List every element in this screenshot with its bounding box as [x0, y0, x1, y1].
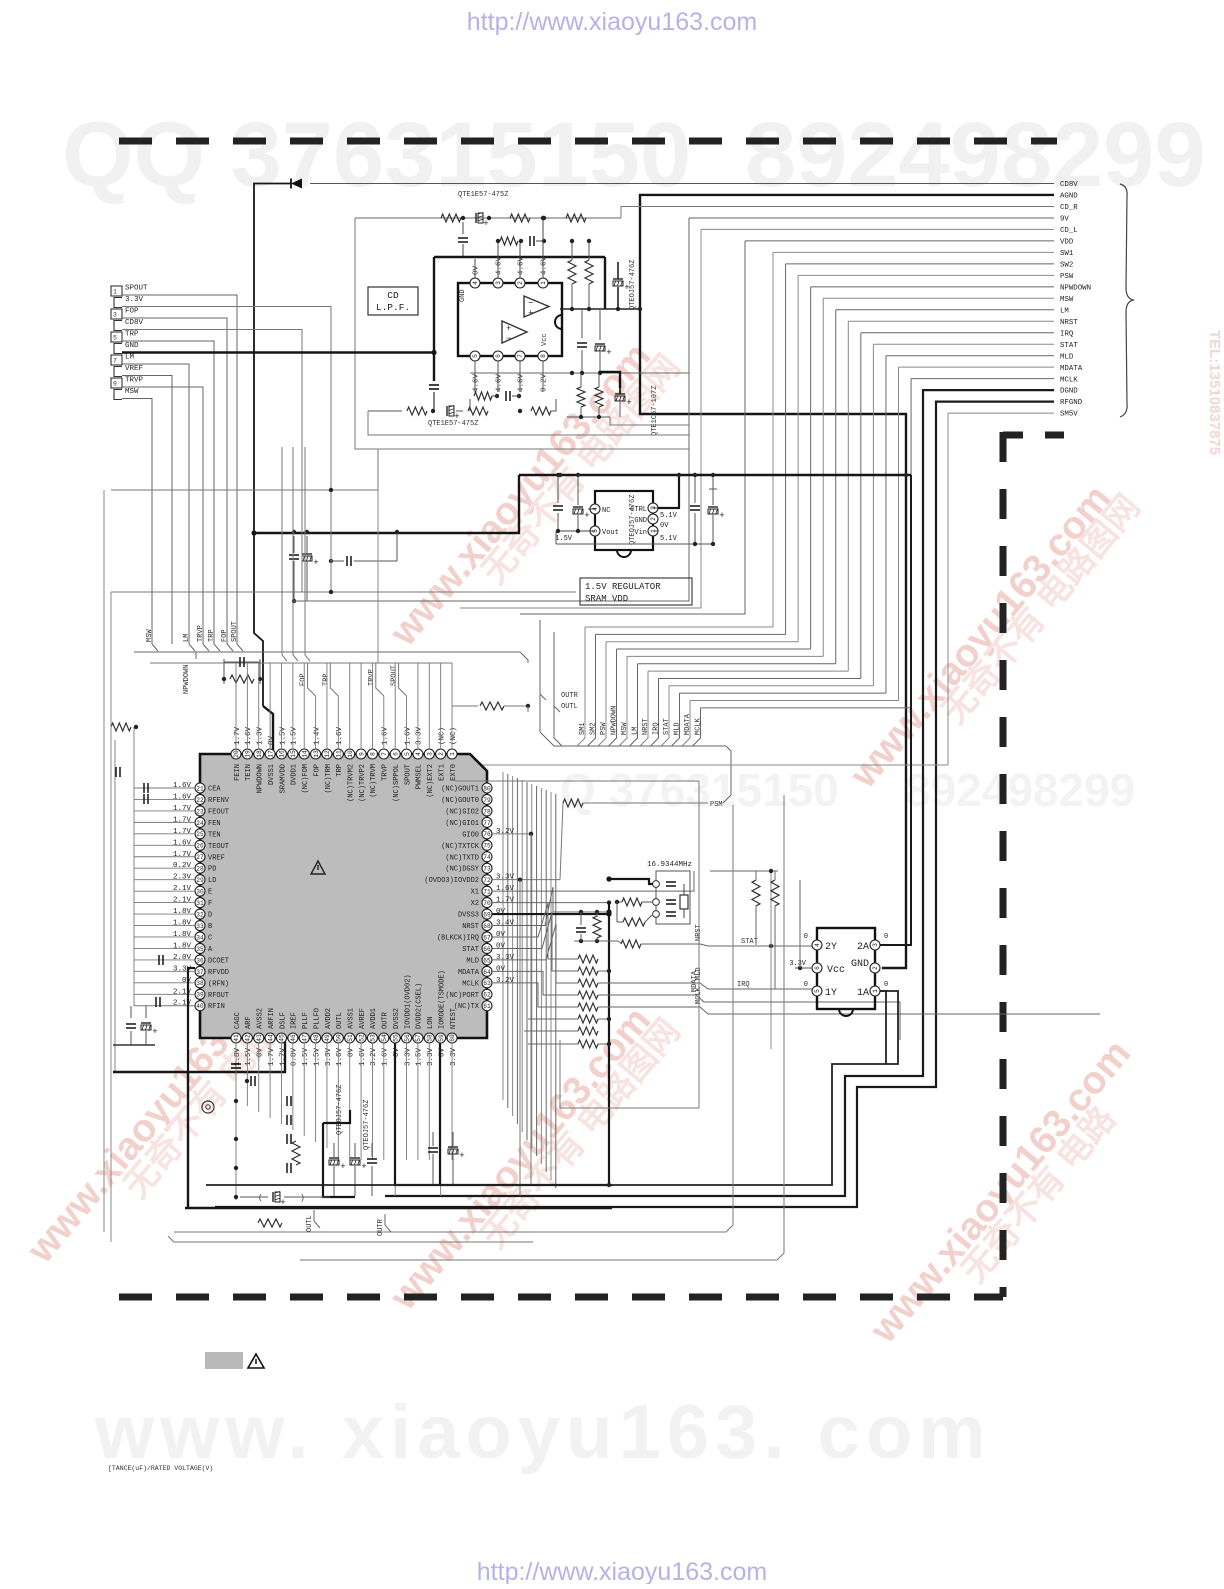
svg-text:0V: 0V [496, 965, 506, 973]
svg-text:3.3V: 3.3V [404, 1048, 412, 1067]
svg-text:28: 28 [196, 866, 204, 873]
svg-text:1.5V: 1.5V [279, 726, 287, 745]
regulator ecap C-r4 [712, 475, 714, 505]
main IC top pins [231, 749, 241, 759]
svg-text:SRAMVDD: SRAMVDD [279, 764, 287, 793]
electrolytic C-e1 [613, 278, 623, 280]
svg-text:4: 4 [814, 943, 821, 947]
svg-text:ARFIN: ARFIN [268, 1008, 276, 1029]
svg-text:RFGND: RFGND [1060, 399, 1083, 407]
svg-text:(NC)TRM: (NC)TRM [325, 764, 333, 793]
svg-text:−: − [528, 299, 533, 309]
left bottom caps [130, 1006, 132, 1018]
svg-text:(NC)SPPOL: (NC)SPPOL [393, 764, 401, 802]
svg-text:0V: 0V [496, 931, 506, 939]
svg-text:SRAM VDD: SRAM VDD [585, 594, 628, 604]
pins top row lpf [470, 278, 480, 288]
regulator bottom wire [556, 543, 713, 545]
svg-text:65: 65 [483, 957, 491, 964]
svg-text:DCOET: DCOET [208, 957, 229, 965]
svg-text:SPOUT: SPOUT [391, 665, 399, 686]
electrolytic C-m2 [599, 309, 601, 340]
svg-text:63: 63 [483, 980, 491, 987]
svg-text:FEOUT: FEOUT [208, 808, 229, 816]
svg-text:B: B [208, 923, 212, 931]
wire MSW nested corner [823, 297, 1054, 299]
svg-text:(NC)GIO1: (NC)GIO1 [445, 820, 479, 828]
resistor R-lpf1 [441, 214, 461, 222]
staircase wire IRQ [659, 677, 861, 679]
wire connector TRP [122, 341, 214, 644]
svg-text:48: 48 [313, 1034, 320, 1042]
svg-text:PSW: PSW [1060, 273, 1074, 281]
svg-text:GND: GND [851, 959, 869, 970]
pins bottom row lpf [470, 351, 480, 361]
svg-text:CD8V: CD8V [125, 319, 144, 327]
wire connector GND [122, 351, 434, 353]
svg-text:MDATA: MDATA [1060, 365, 1083, 373]
svg-text:21: 21 [196, 785, 204, 792]
svg-text:0V: 0V [660, 522, 669, 530]
svg-text:+: + [340, 1162, 345, 1172]
svg-text:(: ( [258, 1194, 263, 1203]
staircase wire NRST [648, 670, 848, 672]
svg-text:FOP: FOP [221, 629, 229, 642]
svg-text:2: 2 [438, 752, 445, 756]
dashed border right top corner [1003, 432, 1064, 439]
dark vertical to gate 2A [880, 475, 911, 945]
svg-text:GIO0: GIO0 [462, 831, 479, 839]
svg-text:PLLFO: PLLFO [313, 1008, 321, 1029]
svg-text:FOP: FOP [125, 308, 139, 316]
thick corner right lpf [604, 257, 606, 309]
iovdd2 psm wire [492, 879, 560, 881]
wire connector 3.3V [122, 307, 331, 593]
svg-text:TRVP: TRVP [197, 625, 205, 642]
nrst rc rows [574, 911, 609, 913]
svg-text:AVDD2: AVDD2 [325, 1008, 333, 1029]
staircase drop MCLK [693, 708, 701, 746]
ecap C-b4 [329, 1157, 339, 1159]
crystal caps [666, 881, 676, 883]
series resistor stack right of IC [578, 955, 598, 963]
svg-text:PLLF: PLLF [302, 1012, 310, 1029]
svg-text:3.2V: 3.2V [496, 828, 515, 836]
resistor R-lpf2 [510, 214, 530, 222]
bottom resistor R-b2 [258, 1219, 282, 1227]
svg-text:www. xiaoyu163. com: www. xiaoyu163. com [94, 1390, 992, 1475]
cap C-b1 big [231, 1063, 241, 1065]
wire MDATA [598, 995, 900, 1040]
svg-text:2A: 2A [857, 942, 869, 953]
svg-text:80: 80 [483, 785, 491, 792]
svg-text:1.6V: 1.6V [336, 1048, 344, 1067]
wire NRST STAT to gate [700, 944, 812, 946]
svg-text:1.4V: 1.4V [313, 726, 321, 745]
svg-text:74: 74 [483, 854, 491, 861]
svg-text:3.2V: 3.2V [370, 1048, 378, 1067]
svg-text:CD_R: CD_R [1060, 204, 1078, 212]
svg-text:LM: LM [183, 634, 191, 642]
svg-text:(RFN): (RFN) [208, 980, 229, 988]
svg-text:FEIN: FEIN [234, 764, 242, 781]
svg-text:QQ 376315150: QQ 376315150 [62, 104, 691, 206]
svg-text:TRP: TRP [336, 764, 344, 777]
svg-text:SW1: SW1 [1060, 250, 1074, 258]
svg-text:15: 15 [290, 750, 297, 758]
svg-text:1Y: 1Y [825, 988, 837, 999]
svg-text:3.3V: 3.3V [789, 960, 807, 968]
svg-text:RFOUT: RFOUT [208, 992, 229, 1000]
svg-text:37: 37 [196, 969, 204, 976]
right labels brace [1120, 184, 1133, 417]
gate right connections [880, 944, 886, 946]
svg-text:VREF: VREF [208, 854, 225, 862]
wire lpf top right [586, 217, 621, 219]
svg-text:5: 5 [113, 335, 117, 342]
cap C-f3 on 3.3V branch [329, 559, 333, 563]
svg-text:68: 68 [483, 923, 491, 930]
wire IRQ nested corner [861, 332, 1054, 334]
svg-text:47: 47 [301, 1034, 308, 1042]
svg-text:TRVP: TRVP [382, 764, 390, 781]
svg-text:QTE1E57-475Z: QTE1E57-475Z [458, 191, 508, 199]
fan verticals alongside IC [502, 772, 504, 1100]
nrst wire [492, 887, 574, 926]
x2 thick drop [608, 903, 610, 1185]
svg-text:1.6V: 1.6V [245, 726, 253, 745]
svg-text:NPWDOWN: NPWDOWN [1060, 284, 1091, 292]
thick 5V feed to rail [254, 475, 519, 533]
svg-text:Vout: Vout [602, 529, 619, 537]
resistor on wire y706 [452, 705, 478, 707]
svg-text:9: 9 [358, 752, 365, 756]
svg-text:CD8V: CD8V [1060, 181, 1078, 189]
svg-text:1.5V: 1.5V [302, 1048, 310, 1067]
resistor R-b1 [292, 1141, 300, 1165]
wires lpf pin stubs top [474, 259, 476, 278]
regulator thick 5V rail [519, 474, 911, 476]
svg-text:MLD: MLD [466, 957, 479, 965]
svg-text:4: 4 [415, 752, 422, 756]
svg-text:0: 0 [804, 933, 808, 941]
svg-text:5: 5 [472, 354, 479, 358]
svg-text:X2: X2 [471, 900, 479, 908]
capacitor C-fb1 [529, 236, 531, 246]
svg-text:MSW: MSW [125, 388, 139, 396]
svg-text:2.1V: 2.1V [173, 885, 192, 893]
left cap C-l1 [115, 767, 117, 777]
svg-text:0V: 0V [496, 942, 506, 950]
svg-text:1.3V: 1.3V [257, 726, 265, 745]
staircase wire PSW [606, 641, 798, 643]
svg-text:NRST: NRST [1060, 319, 1078, 327]
svg-text:RFIN: RFIN [208, 1003, 225, 1011]
svg-text:IRQ: IRQ [653, 722, 661, 735]
svg-text:49: 49 [324, 1034, 331, 1042]
svg-text:34: 34 [196, 934, 204, 941]
svg-text:20: 20 [233, 750, 240, 758]
svg-text:70: 70 [483, 900, 491, 907]
svg-text:30: 30 [196, 889, 204, 896]
svg-text:3.2V: 3.2V [496, 977, 515, 985]
legend warning triangle [248, 1354, 264, 1368]
left thick rfn [188, 968, 195, 1072]
svg-text:+: + [483, 219, 488, 229]
regulator IC U-reg [595, 491, 653, 550]
svg-text:SW2: SW2 [1060, 261, 1073, 269]
wire SW2 nested corner [786, 263, 1054, 265]
svg-text:(NC)PORT: (NC)PORT [445, 992, 479, 1000]
svg-text:AGND: AGND [1060, 193, 1078, 201]
stack rows to thick bus [598, 970, 609, 972]
cap C-b3 [286, 1163, 288, 1173]
svg-text:892498299: 892498299 [905, 764, 1135, 816]
svg-text:4.6V: 4.6V [518, 373, 526, 392]
svg-text:6: 6 [392, 752, 399, 756]
svg-text:TEOUT: TEOUT [208, 843, 229, 851]
svg-text:DVSS2: DVSS2 [393, 1008, 401, 1029]
svg-text:TEN: TEN [208, 831, 221, 839]
connector pin 7 LM [111, 355, 122, 365]
svg-text:16: 16 [279, 750, 286, 758]
svg-text:+: + [280, 1198, 285, 1208]
svg-text:(NC)TRVP2: (NC)TRVP2 [359, 764, 367, 802]
wire AGND thick [640, 195, 1054, 968]
svg-text:SM2: SM2 [590, 722, 598, 735]
staircase drop LM [630, 664, 638, 746]
svg-text:OUTR: OUTR [377, 1218, 385, 1236]
staircase drop STAT [661, 686, 669, 746]
wires lpf pin stubs bottom [474, 361, 476, 392]
staircase drop MSW [619, 656, 627, 746]
svg-text:SPOUT: SPOUT [404, 764, 412, 785]
merge bus wire [540, 732, 731, 803]
svg-text:3.3V: 3.3V [496, 874, 515, 882]
cap C-b2 [250, 1076, 252, 1086]
svg-text:CD_L: CD_L [1060, 227, 1078, 235]
svg-text:4: 4 [472, 281, 479, 285]
wire MLD nested corner [886, 355, 1054, 357]
wire connector FOP [122, 318, 227, 644]
svg-text:(NC)GOUT0: (NC)GOUT0 [441, 797, 479, 805]
svg-text:27: 27 [196, 854, 204, 861]
svg-text:EXT1: EXT1 [438, 764, 446, 781]
svg-text:LON: LON [427, 1016, 435, 1029]
wire MLD IRQ to gate [598, 983, 812, 989]
staircase drop IRQ [651, 678, 659, 746]
main IC bottom pins [231, 1033, 241, 1043]
thick analog bus lpf [434, 256, 605, 258]
svg-text:(NC)TXTD: (NC)TXTD [445, 854, 479, 862]
svg-text:F: F [208, 900, 212, 908]
thick gnd jog down [188, 706, 285, 1072]
wire connector VREF [122, 376, 172, 645]
svg-text:NRST: NRST [462, 923, 479, 931]
svg-text:8: 8 [540, 354, 547, 358]
svg-text:1.7V: 1.7V [173, 805, 192, 813]
electrolytic C-lpf1 [475, 213, 477, 223]
svg-text:+: + [606, 348, 611, 358]
staircase wire MLD [680, 692, 886, 694]
svg-text:18: 18 [256, 750, 263, 758]
svg-text:25: 25 [196, 831, 204, 838]
svg-text:24: 24 [196, 820, 204, 827]
svg-text:45: 45 [279, 1034, 286, 1042]
svg-text:PWMSEL: PWMSEL [416, 764, 424, 789]
main IC U1 body [200, 754, 487, 1038]
svg-text:NPWDOWN: NPWDOWN [611, 706, 619, 735]
svg-text:TEL:13510837875: TEL:13510837875 [1206, 330, 1223, 455]
vertical resistor R-v4 [595, 387, 603, 407]
svg-text:TRP: TRP [208, 629, 216, 642]
svg-text:1.5V: 1.5V [313, 1048, 321, 1067]
svg-text:DVSS1: DVSS1 [268, 764, 276, 785]
nrst res [593, 916, 601, 938]
svg-text:7: 7 [517, 354, 524, 358]
main IC right pins [482, 783, 492, 793]
svg-text:+: + [528, 308, 533, 318]
svg-text:77: 77 [483, 820, 491, 827]
gio0 wire [492, 833, 531, 835]
svg-text:OUTR: OUTR [382, 1011, 390, 1029]
caps pll group [286, 1096, 288, 1106]
svg-text:52: 52 [358, 1034, 365, 1042]
opamp U-lpf-a [524, 296, 549, 317]
left rail verticals [133, 727, 135, 1006]
svg-text:Vin: Vin [634, 529, 647, 537]
wire DGND thick [385, 390, 1054, 1196]
svg-text:GND: GND [459, 289, 467, 302]
staircase drop NRST [640, 671, 648, 746]
svg-text:FOP: FOP [300, 673, 308, 686]
svg-text:+: + [719, 511, 724, 521]
svg-text:1: 1 [540, 281, 547, 285]
svg-text:66: 66 [483, 946, 491, 953]
long wire y765 [452, 764, 948, 766]
wire MDATA nested corner [899, 366, 1055, 368]
svg-text:1.7V: 1.7V [496, 897, 515, 905]
svg-text:MSW: MSW [621, 722, 629, 735]
svg-text:79: 79 [483, 797, 491, 804]
svg-text:GND: GND [125, 342, 139, 350]
svg-text:SM5V: SM5V [1060, 411, 1078, 419]
svg-text:892498299: 892498299 [745, 104, 1206, 206]
svg-text:MCLK: MCLK [695, 717, 703, 735]
svg-text:LM: LM [632, 727, 640, 735]
svg-text:56: 56 [404, 1034, 411, 1042]
crystal pins [653, 881, 660, 888]
svg-text:3: 3 [495, 281, 502, 285]
crystal thick bus [609, 879, 653, 884]
staircase drop MLD [672, 693, 680, 746]
wire SW1 nested corner [773, 251, 1054, 253]
svg-text:2: 2 [872, 966, 879, 970]
regulator dots top [693, 473, 697, 477]
svg-text:0.2V: 0.2V [173, 862, 192, 870]
svg-text:DGND: DGND [1060, 388, 1078, 396]
svg-text:(NC)TRVM2: (NC)TRVM2 [348, 764, 356, 802]
svg-text:43: 43 [256, 1034, 263, 1042]
svg-text:[TANCE(uF)/RATED VOLTAGE(V): [TANCE(uF)/RATED VOLTAGE(V) [108, 1465, 213, 1472]
svg-text:1.6V: 1.6V [382, 726, 390, 745]
left long verticals [103, 490, 105, 1232]
bottom connect verticals [726, 805, 733, 1232]
capacitor C-lpf2 [462, 222, 464, 234]
svg-text:SM1: SM1 [579, 722, 587, 735]
svg-text:MDATA: MDATA [458, 969, 480, 977]
svg-text:3: 3 [872, 943, 879, 947]
svg-text:VREF: VREF [125, 365, 143, 373]
staircase drop NPWDOWN [609, 649, 617, 746]
wire CD8V top run with diode [310, 183, 1054, 185]
svg-text:NPWDOWN: NPWDOWN [183, 665, 191, 694]
svg-text:OUTL: OUTL [336, 1012, 344, 1029]
connector pin 9 TRVP [111, 378, 122, 388]
svg-text:1.8V: 1.8V [173, 908, 192, 916]
svg-text:2.0V: 2.0V [173, 954, 192, 962]
svg-text:E: E [208, 889, 212, 897]
staircase wire SM2 [596, 633, 786, 635]
svg-text:CTRL: CTRL [630, 506, 647, 514]
resistor R-fb1 [500, 237, 518, 245]
svg-text:IREF: IREF [291, 1012, 299, 1029]
svg-text:TRVP: TRVP [125, 377, 144, 385]
svg-text:10: 10 [347, 750, 354, 758]
gate pins left [812, 940, 822, 950]
svg-text:2.1V: 2.1V [173, 897, 192, 905]
junction dots bottom col [234, 1099, 238, 1103]
svg-text:76: 76 [483, 831, 491, 838]
left resistor R-l1 [111, 723, 131, 731]
svg-text:1.7V: 1.7V [173, 816, 192, 824]
vertical resistor R-v1 [571, 241, 573, 260]
cap C-b7 [428, 1147, 438, 1149]
svg-text:19: 19 [245, 750, 252, 758]
vertical resistor R-v2 [588, 241, 590, 260]
svg-text:69: 69 [483, 911, 491, 918]
ecap C-b5 [350, 1157, 360, 1159]
regulator cap C-r3 [694, 475, 696, 503]
svg-text:2: 2 [650, 517, 657, 521]
svg-text:60: 60 [449, 1034, 456, 1042]
svg-text:4.6V: 4.6V [496, 256, 504, 275]
svg-text:IRQ: IRQ [1060, 330, 1074, 338]
svg-text:http://www.xiaoyu163.com: http://www.xiaoyu163.com [477, 1558, 767, 1584]
svg-text:62: 62 [483, 992, 491, 999]
svg-text:QTEOJ57-476Z: QTEOJ57-476Z [336, 1085, 344, 1135]
junction row y373 [470, 372, 689, 374]
thick outl loop [323, 1110, 350, 1123]
regulator ecap C-r2 [577, 475, 579, 505]
connector pin 8 VREF [114, 367, 122, 377]
crystal box [656, 871, 690, 924]
svg-text:http://www.xiaoyu163.com: http://www.xiaoyu163.com [467, 8, 757, 36]
svg-text:54: 54 [381, 1034, 388, 1042]
crystal resistors [622, 898, 642, 906]
nrst cap [580, 912, 582, 925]
lpf row y417 [567, 416, 610, 418]
wire connector SPOUT [122, 295, 237, 644]
svg-text:STAT: STAT [1060, 342, 1078, 350]
svg-text:3.3V: 3.3V [496, 954, 515, 962]
svg-text:(BLKCK)IRQ: (BLKCK)IRQ [437, 934, 479, 942]
lpf bottom extra rows [368, 411, 689, 435]
main IC warning triangle [311, 861, 325, 874]
svg-text:53: 53 [370, 1034, 377, 1042]
svg-text:0: 0 [884, 981, 888, 989]
svg-text:5: 5 [814, 989, 821, 993]
